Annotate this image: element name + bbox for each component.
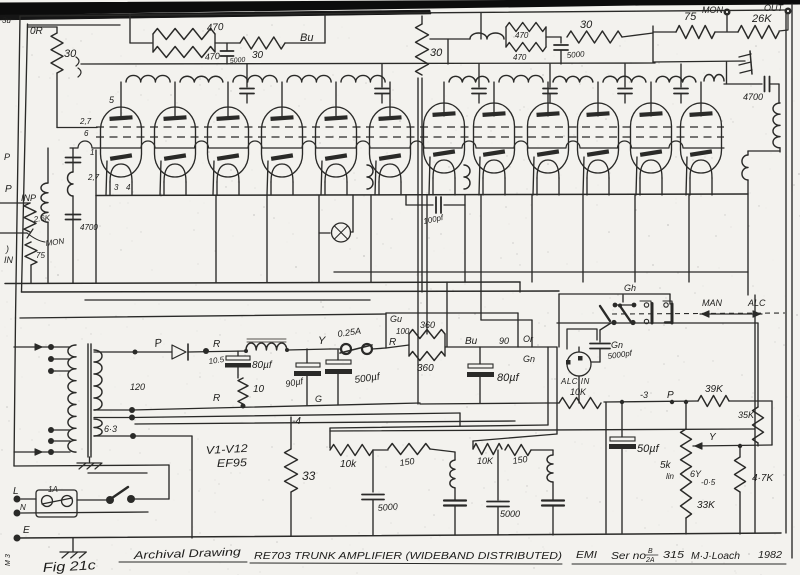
wire — [135, 351, 172, 353]
tube V10 — [578, 103, 619, 195]
frame left inner — [22, 24, 28, 292]
svg-text:R: R — [213, 393, 220, 404]
capacitor Gn 5000pf — [600, 323, 611, 330]
anode wires — [121, 82, 701, 116]
rail 424 — [135, 421, 515, 424]
svg-text:M·J·Loach: M·J·Loach — [691, 551, 740, 562]
svg-text:10: 10 — [253, 384, 265, 395]
wire — [426, 282, 428, 334]
wire — [215, 42, 240, 44]
svg-text:G: G — [315, 394, 322, 404]
wires — [51, 429, 70, 431]
capacitor 5000 left — [226, 43, 228, 51]
tube V12 — [681, 103, 722, 195]
tube V6 — [370, 107, 411, 195]
wire — [729, 400, 772, 402]
resistor 39K — [698, 396, 729, 407]
svg-text:26K: 26K — [751, 13, 772, 25]
dashed link — [612, 313, 785, 314]
svg-text:3: 3 — [114, 183, 119, 192]
svg-text:50µf: 50µf — [637, 443, 660, 455]
svg-text:Ser no: Ser no — [611, 551, 647, 562]
wire box — [386, 312, 518, 314]
svg-text:4·7K: 4·7K — [752, 473, 774, 484]
resistor 10K b — [473, 444, 502, 455]
capacitor 5000 b — [487, 501, 509, 503]
switch blade 2 — [620, 306, 631, 322]
svg-text:E: E — [23, 525, 30, 536]
fuse box — [36, 490, 77, 517]
capacitor 500uf — [337, 350, 339, 360]
svg-text:1982: 1982 — [758, 550, 782, 561]
resistor 150 b — [505, 445, 531, 456]
wire — [653, 61, 745, 62]
wire — [480, 13, 482, 39]
ground E — [72, 538, 74, 551]
decoupling caps — [240, 64, 688, 103]
svg-text:3: 3 — [5, 554, 12, 558]
wire — [519, 282, 521, 292]
tap dots — [129, 407, 135, 413]
svg-text:RE703 TRUNK AMPLIFIER (WIDEBAN: RE703 TRUNK AMPLIFIER (WIDEBAND DISTRIBU… — [254, 551, 562, 562]
tube V2 — [155, 107, 196, 195]
capacitor 5000 a — [362, 494, 384, 496]
net top line 2 — [473, 434, 557, 441]
resistor 2.6K — [24, 203, 36, 232]
capacitor 80uf 2 — [479, 347, 481, 364]
grid dashes g3 — [96, 126, 724, 128]
resistor 33 — [290, 417, 292, 449]
svg-text:Gu: Gu — [390, 314, 402, 324]
resistor pair 470/470 right — [506, 23, 546, 63]
svg-text:5000: 5000 — [377, 501, 398, 513]
svg-text:Bu: Bu — [465, 336, 478, 347]
grid bus g1 with hops — [70, 141, 724, 148]
svg-text:315: 315 — [663, 550, 685, 561]
svg-text:B: B — [648, 548, 653, 555]
svg-text:EF95: EF95 — [217, 457, 248, 470]
tap MON — [0, 232, 27, 234]
wire — [518, 346, 557, 348]
inductor grid b — [552, 450, 554, 455]
svg-text:80µf: 80µf — [497, 372, 520, 384]
capacitor a — [66, 157, 81, 159]
wire — [28, 26, 58, 28]
rail — [420, 403, 546, 404]
contact 1 — [640, 301, 651, 305]
svg-text:6: 6 — [84, 129, 89, 138]
anode coil chain — [126, 75, 696, 82]
wire loop — [14, 318, 16, 466]
wire — [287, 349, 330, 350]
svg-text:Fig 21c: Fig 21c — [42, 557, 96, 575]
wire — [497, 450, 499, 500]
svg-text:75: 75 — [684, 11, 697, 23]
tube V5 — [316, 107, 357, 195]
capacitor 90uf — [306, 349, 308, 363]
resistor 4.7K — [739, 446, 741, 457]
cathode drop wires — [216, 195, 689, 282]
svg-text:80µf: 80µf — [252, 360, 273, 371]
svg-text:N: N — [20, 503, 26, 512]
wire Gu — [385, 313, 387, 348]
svg-text:P: P — [4, 152, 10, 162]
wire — [21, 498, 36, 500]
transformer core — [87, 344, 89, 457]
svg-text:470: 470 — [513, 53, 527, 62]
svg-text:5k: 5k — [660, 460, 672, 471]
rail R — [132, 403, 420, 410]
svg-text:P: P — [5, 184, 12, 195]
inductor grid a — [454, 452, 456, 460]
transformer primary — [68, 345, 76, 452]
rail low — [85, 299, 370, 301]
tap arcs — [76, 57, 79, 66]
wire — [129, 14, 131, 43]
terminal OUT — [785, 8, 792, 15]
pot 5k lin — [685, 402, 687, 429]
taps — [94, 351, 135, 353]
inductor output — [778, 84, 780, 103]
wire — [557, 322, 758, 324]
wire — [386, 345, 409, 348]
frame right outer — [791, 4, 793, 558]
svg-text:): ) — [5, 244, 9, 254]
wire — [373, 449, 388, 451]
wire Bu drop — [324, 15, 326, 43]
net top line — [330, 425, 548, 428]
frame right mid vertical — [754, 295, 756, 533]
wire — [319, 232, 330, 234]
rail 434 — [330, 429, 755, 431]
wire — [56, 73, 58, 128]
svg-text:Bu: Bu — [300, 32, 313, 44]
svg-text:90: 90 — [499, 336, 509, 346]
svg-text:30: 30 — [252, 50, 264, 61]
arrow MAN-ALC — [700, 313, 762, 315]
wire — [329, 428, 331, 448]
svg-text:10K: 10K — [477, 456, 494, 466]
terminal dots low — [48, 427, 54, 433]
wire — [578, 347, 580, 352]
wire — [531, 449, 553, 451]
resistor 10K — [559, 398, 601, 409]
wire — [372, 450, 374, 492]
fuse 0.25A — [330, 348, 341, 350]
svg-text:lin: lin — [666, 472, 675, 481]
rail section — [20, 314, 386, 318]
rail -3 — [604, 401, 698, 402]
svg-text:2A: 2A — [645, 557, 655, 564]
svg-text:39K: 39K — [705, 384, 724, 395]
svg-text:30: 30 — [580, 19, 593, 31]
svg-text:100: 100 — [396, 327, 410, 336]
tube V11 — [631, 103, 672, 195]
transformer secondary 120 — [94, 350, 102, 410]
svg-text:INP: INP — [21, 193, 36, 203]
svg-text:150: 150 — [512, 454, 528, 466]
ground core — [89, 457, 91, 462]
inductor input — [47, 148, 49, 183]
capacitor 50uf — [621, 402, 623, 437]
wire — [622, 33, 653, 37]
svg-text:Gn: Gn — [611, 340, 623, 350]
svg-text:5000: 5000 — [566, 49, 585, 60]
frame top line — [20, 10, 786, 16]
svg-text:Y: Y — [318, 335, 326, 347]
svg-text:470: 470 — [206, 22, 224, 34]
svg-text:MON: MON — [702, 5, 723, 15]
svg-text:3u: 3u — [2, 16, 11, 25]
resistor 10 — [238, 378, 248, 404]
svg-text:360: 360 — [420, 320, 435, 330]
tube V7 — [423, 103, 464, 195]
svg-text:-0·5: -0·5 — [701, 478, 716, 487]
wire — [546, 36, 561, 38]
tube V8 — [474, 103, 515, 195]
resistor 35K — [757, 401, 759, 407]
bus HT — [5, 282, 520, 284]
wire drop left — [95, 150, 97, 283]
terminal dots — [48, 344, 54, 350]
wire — [653, 31, 676, 33]
inductor interstage b — [464, 165, 470, 189]
svg-text:120: 120 — [130, 382, 145, 392]
tube V9 — [528, 103, 569, 195]
wire input — [0, 202, 30, 204]
diode — [172, 345, 186, 359]
wire — [748, 150, 780, 152]
resistor 30 top-left — [51, 33, 63, 73]
inductor line — [742, 155, 748, 180]
svg-text:IN: IN — [4, 255, 14, 265]
resistor 30 right — [567, 31, 622, 43]
mains arrow bottom — [14, 451, 51, 453]
svg-text:V1-V12: V1-V12 — [206, 443, 249, 457]
terminal L — [14, 496, 21, 503]
wire divider — [417, 78, 419, 404]
svg-text:1: 1 — [90, 148, 94, 157]
frame left outer — [16, 16, 21, 318]
svg-text:470: 470 — [515, 31, 529, 40]
svg-text:ALC IN: ALC IN — [560, 377, 590, 386]
wire — [188, 351, 246, 352]
svg-text:EMI: EMI — [576, 550, 597, 561]
inductor — [430, 38, 470, 40]
resistor 150 — [388, 444, 430, 455]
wire — [72, 148, 74, 172]
resistor 26K — [738, 26, 779, 39]
svg-text:4700: 4700 — [80, 223, 98, 232]
grid dashes g2 — [96, 136, 724, 138]
wire — [559, 293, 670, 295]
svg-text:33: 33 — [302, 469, 316, 483]
svg-text:4700: 4700 — [743, 92, 763, 102]
resistor 75 in — [25, 242, 37, 265]
rail -4 — [132, 413, 460, 418]
rail 6.3b — [133, 435, 192, 437]
wire — [30, 265, 32, 283]
contact 2 — [663, 301, 672, 304]
svg-text:5000: 5000 — [500, 509, 520, 519]
wire — [135, 498, 169, 500]
scan artifact streak — [0, 10, 431, 20]
choke — [246, 343, 287, 350]
wire — [472, 441, 474, 449]
svg-text:33K: 33K — [697, 500, 716, 511]
rail Y — [693, 445, 772, 446]
scan artifact band — [0, 0, 800, 16]
svg-text:35K: 35K — [738, 410, 755, 420]
svg-text:150: 150 — [399, 456, 415, 468]
svg-text:4: 4 — [126, 183, 131, 192]
tube ALC — [567, 352, 591, 376]
svg-text:1A: 1A — [48, 485, 58, 494]
lamp — [332, 223, 351, 242]
svg-text:30: 30 — [64, 48, 77, 60]
svg-text:2,7: 2,7 — [79, 117, 92, 126]
mains arrow top — [14, 346, 51, 348]
transformer secondary 6.3 — [94, 419, 102, 436]
wire — [191, 436, 193, 538]
capacitor grid a — [444, 499, 466, 501]
wire — [546, 402, 559, 404]
svg-text:Gh: Gh — [624, 283, 636, 293]
svg-text:M: M — [5, 560, 12, 566]
wire — [715, 31, 738, 33]
tube V3 — [208, 107, 249, 195]
tube V4 — [262, 107, 303, 195]
wire — [578, 376, 580, 403]
junction — [620, 400, 624, 404]
switch blade 1 — [600, 306, 610, 321]
resistor 10k — [330, 445, 373, 456]
capacitor 5000 — [554, 44, 568, 46]
svg-text:6·3: 6·3 — [104, 424, 117, 434]
resistor 33K — [681, 470, 692, 518]
svg-text:MAN: MAN — [702, 298, 723, 308]
svg-text:L: L — [13, 486, 19, 497]
inductor interstage a — [367, 165, 373, 189]
capacitor 80uf — [237, 351, 239, 356]
wire L — [480, 282, 482, 320]
svg-text:470: 470 — [204, 51, 220, 62]
switch link — [615, 304, 634, 306]
bus 2 — [22, 291, 560, 292]
switch mains — [106, 496, 114, 504]
svg-text:2,7: 2,7 — [87, 173, 100, 182]
wire — [652, 26, 654, 62]
terminal N — [14, 510, 21, 517]
svg-text:R: R — [213, 339, 220, 350]
wires — [51, 358, 70, 360]
wire — [447, 39, 449, 64]
wire — [77, 499, 106, 501]
bottom rail E — [17, 533, 781, 538]
resistor pair 470/470 — [153, 22, 224, 62]
tube V1 — [101, 107, 142, 195]
resistor pair 360/360 — [409, 320, 445, 374]
terminal MON — [724, 9, 731, 16]
svg-text:75: 75 — [36, 251, 45, 260]
frame inner top — [28, 24, 121, 26]
capacitor 100pf — [405, 195, 407, 205]
heater rail — [96, 194, 748, 196]
rail — [334, 271, 748, 273]
bus — [81, 63, 655, 64]
svg-text:OUT: OUT — [764, 3, 785, 13]
svg-text:360: 360 — [417, 363, 434, 374]
terminal E — [14, 535, 21, 542]
svg-text:ALC: ALC — [747, 298, 766, 308]
svg-text:30: 30 — [430, 47, 443, 59]
capacitor grid b — [542, 499, 564, 501]
trimmer — [739, 51, 752, 74]
wire — [726, 62, 728, 84]
wire — [351, 231, 354, 233]
junction — [241, 404, 246, 409]
connector box — [567, 329, 597, 349]
svg-text:-4: -4 — [292, 416, 301, 427]
wire — [605, 402, 607, 533]
svg-text:10k: 10k — [340, 459, 357, 470]
inductor input 2 — [68, 172, 74, 196]
wire — [372, 348, 386, 349]
resistor 75 — [676, 26, 715, 39]
svg-text:-3: -3 — [640, 390, 648, 400]
inductor out chain — [704, 75, 724, 81]
resistor 30 — [240, 37, 285, 49]
resistor 30 mid — [416, 24, 429, 75]
frame right inner — [785, 9, 787, 533]
svg-text:Gn: Gn — [523, 354, 535, 364]
capacitor 4700 — [764, 77, 766, 92]
capacitor 4700 in — [66, 214, 81, 216]
wire — [747, 151, 749, 155]
svg-text:P: P — [667, 390, 674, 401]
